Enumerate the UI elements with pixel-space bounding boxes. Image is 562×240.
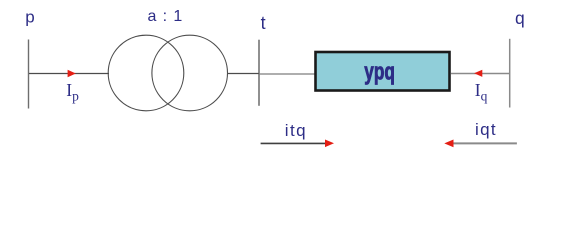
- current arrow Ip: [68, 70, 76, 78]
- svg-text:Iq: Iq: [475, 80, 488, 104]
- svg-text:itq: itq: [285, 121, 307, 140]
- admittance box ypq: [316, 52, 450, 91]
- svg-text:a : 1: a : 1: [148, 8, 184, 25]
- transformer winding 1: [108, 35, 184, 111]
- wire admittance box to bus q: [451, 73, 510, 75]
- svg-text:t: t: [261, 13, 266, 33]
- svg-text:Ip: Ip: [66, 80, 79, 104]
- branch current iqt shaft: [453, 142, 517, 144]
- wire bus t to admittance box: [259, 73, 315, 75]
- svg-text:q: q: [515, 8, 525, 28]
- bus p: [28, 40, 30, 109]
- bus t: [258, 40, 260, 106]
- branch current itq shaft: [261, 142, 326, 144]
- bus q: [509, 39, 511, 108]
- wire bus p to transformer: [29, 73, 109, 75]
- branch current itq arrowhead: [325, 140, 334, 148]
- svg-text:p: p: [25, 7, 34, 26]
- svg-text:iqt: iqt: [475, 120, 497, 139]
- transformer winding 2: [152, 35, 228, 111]
- wire transformer to bus t: [228, 73, 260, 75]
- svg-text:ypq: ypq: [364, 59, 395, 86]
- branch current iqt arrowhead: [444, 140, 453, 148]
- current arrow Iq: [474, 70, 482, 77]
